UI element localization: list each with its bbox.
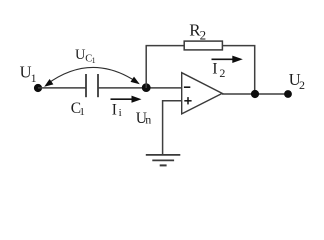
wire [38, 87, 86, 89]
capacitor C1 [86, 74, 98, 97]
plus pin [184, 97, 191, 104]
svg-text:i: i [119, 107, 122, 119]
label Ii [112, 102, 122, 120]
node A [142, 83, 151, 92]
wire [222, 46, 254, 94]
terminal U2 [284, 90, 292, 98]
svg-text:2: 2 [219, 66, 225, 80]
svg-text:2: 2 [200, 28, 207, 43]
op-amp [182, 73, 223, 114]
wire [98, 87, 182, 89]
node B [251, 90, 259, 98]
svg-text:1: 1 [92, 56, 96, 65]
label I2 [212, 61, 225, 80]
label C1 [71, 100, 85, 118]
current arrow I2 [212, 56, 243, 63]
svg-text:1: 1 [31, 71, 37, 85]
svg-text:I: I [212, 61, 217, 78]
wire [222, 93, 288, 95]
svg-text:I: I [112, 102, 117, 119]
label Un [136, 110, 152, 127]
resistor R2 [184, 41, 222, 50]
label R2 [189, 21, 206, 43]
label U2 [289, 70, 305, 92]
minus pin [184, 86, 190, 88]
terminal U1 [34, 84, 42, 92]
ground [146, 155, 181, 166]
svg-text:n: n [145, 113, 151, 127]
label U_C1 [75, 47, 96, 65]
svg-text:2: 2 [299, 78, 305, 92]
wire [163, 101, 182, 155]
label U1 [20, 63, 37, 85]
svg-text:1: 1 [79, 106, 85, 118]
wire [145, 46, 147, 88]
voltage arrow U_C1 [44, 67, 140, 86]
wire [146, 45, 185, 47]
current arrow Ii [111, 96, 142, 103]
